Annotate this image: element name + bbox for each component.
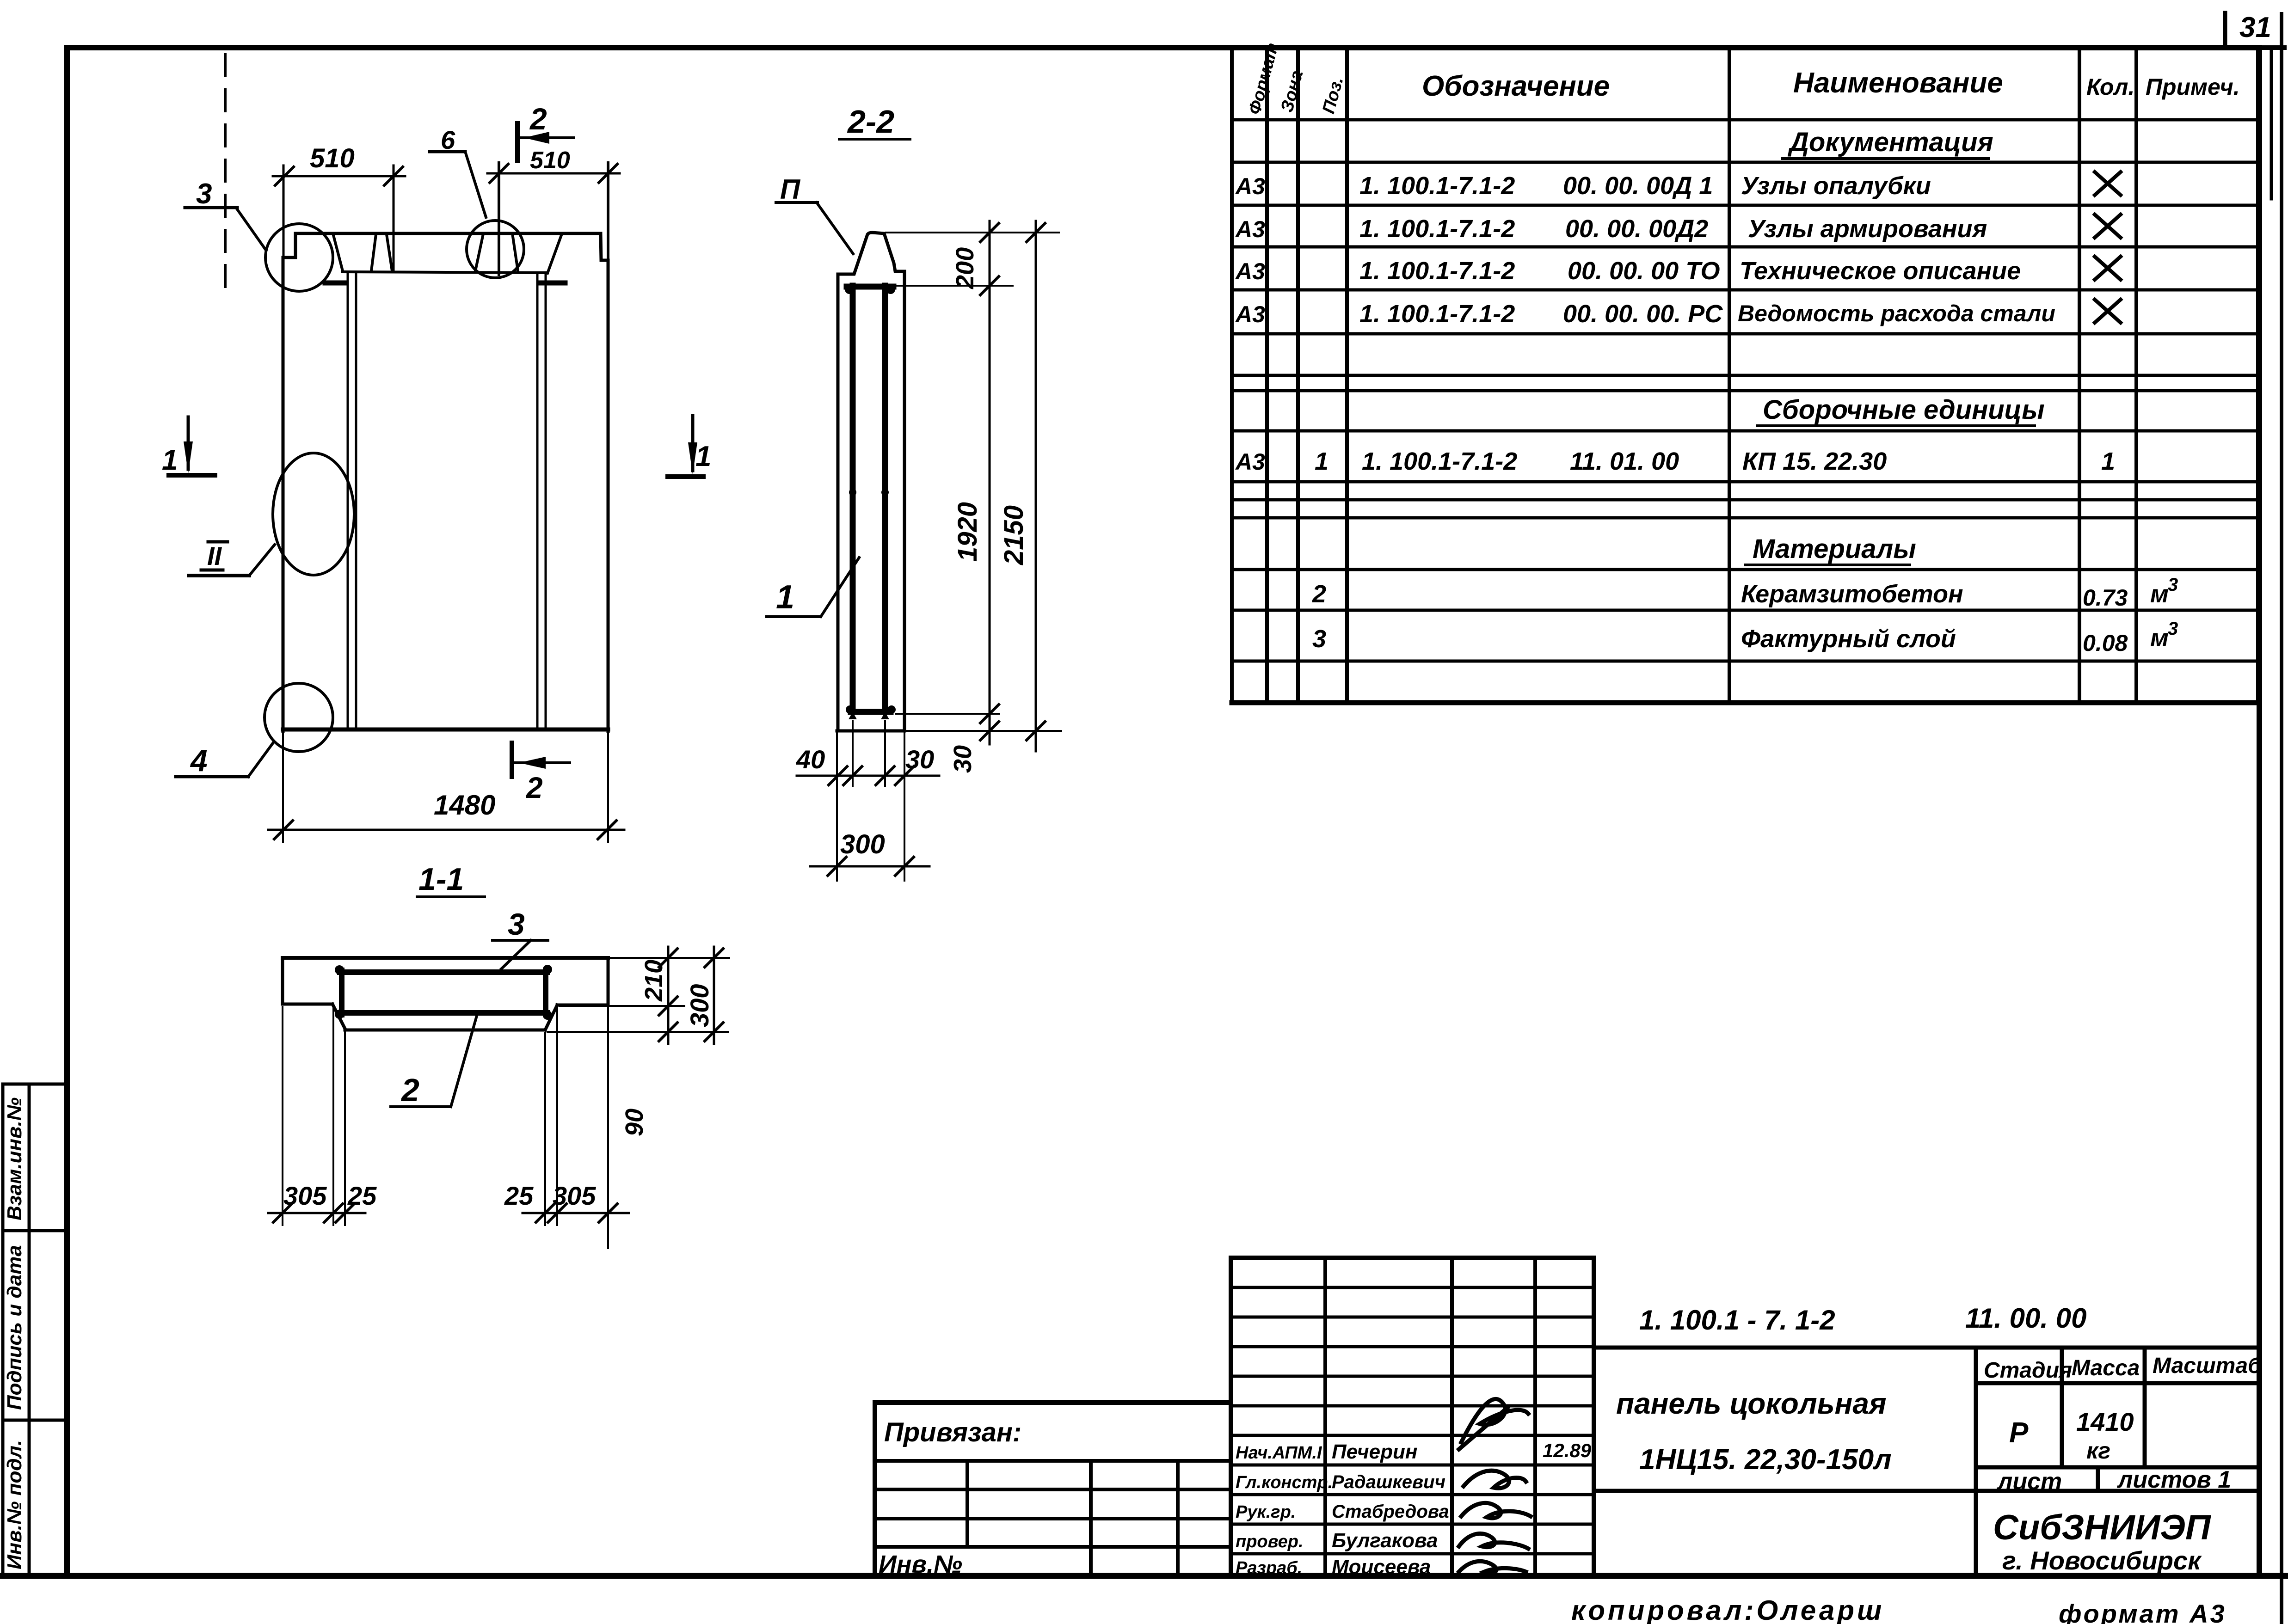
svg-text:Рук.гр.: Рук.гр.: [1236, 1502, 1296, 1522]
svg-text:1-1: 1-1: [418, 862, 464, 897]
svg-text:1: 1: [1315, 447, 1329, 475]
title 1-1: [417, 862, 485, 897]
dim 510 left extension lines: [283, 165, 394, 271]
svg-text:1410: 1410: [2076, 1407, 2134, 1436]
groove 2 left line: [475, 234, 483, 271]
sheet number 31 box: [2225, 12, 2271, 48]
2-2 bottom extension lines: [837, 721, 904, 881]
section mark 1 left: [162, 417, 215, 476]
detail circle 4: [264, 683, 333, 752]
svg-text:Гл.констр.: Гл.констр.: [1236, 1473, 1333, 1492]
label 3 (1-1): [492, 907, 548, 969]
svg-text:0.73: 0.73: [2083, 585, 2128, 611]
svg-text:панель цокольная: панель цокольная: [1616, 1387, 1887, 1420]
svg-text:510: 510: [310, 143, 355, 173]
svg-text:25: 25: [347, 1181, 377, 1210]
right joint cut mark: [540, 281, 565, 286]
left joint cut mark: [325, 281, 345, 286]
dim 210 / 90: [621, 947, 677, 1136]
svg-text:1. 100.1 - 7. 1-2: 1. 100.1 - 7. 1-2: [1639, 1305, 1835, 1336]
dim 2150: [999, 221, 1045, 751]
panel left edge: [282, 257, 285, 731]
svg-text:3: 3: [1312, 625, 1326, 653]
dim 1480 extension lines: [283, 733, 608, 842]
svg-text:А3: А3: [1235, 449, 1265, 475]
svg-text:Привязан:: Привязан:: [884, 1417, 1021, 1447]
svg-text:Кол.: Кол.: [2086, 74, 2134, 100]
detail ellipse II: [273, 453, 354, 575]
1-1 right extension lines: [547, 958, 729, 1032]
svg-text:25: 25: [504, 1181, 534, 1210]
svg-text:Техническое описание: Техническое описание: [1740, 257, 2021, 285]
svg-text:КП 15. 22.30: КП 15. 22.30: [1742, 447, 1887, 475]
svg-text:1480: 1480: [434, 790, 495, 821]
svg-text:40: 40: [796, 745, 825, 774]
svg-text:А3: А3: [1235, 301, 1265, 327]
svg-text:1: 1: [776, 579, 794, 616]
groove 1 right line: [387, 234, 392, 271]
svg-text:00. 00. 00. РС: 00. 00. 00. РС: [1563, 300, 1723, 328]
svg-text:1: 1: [695, 441, 711, 472]
label П: [776, 174, 853, 254]
rebar top tie: [847, 284, 893, 290]
svg-text:Взам.инв.№: Взам.инв.№: [3, 1097, 26, 1220]
svg-text:30: 30: [905, 745, 934, 774]
svg-text:11. 01. 00: 11. 01. 00: [1570, 447, 1679, 475]
svg-text:210: 210: [640, 960, 668, 1002]
panel right edge: [607, 260, 610, 731]
left vertical strip: [3, 1084, 67, 1576]
rebar end dots: [845, 285, 896, 719]
right block texts: [1616, 1303, 2262, 1575]
svg-text:2: 2: [1312, 580, 1326, 608]
svg-text:Наименование: Наименование: [1793, 67, 2003, 99]
svg-text:00. 00. 00Д2: 00. 00. 00Д2: [1565, 215, 1708, 243]
signatures squiggles: [1459, 1399, 1531, 1573]
svg-text:1: 1: [2101, 447, 2115, 475]
detail circle 3: [265, 224, 333, 291]
svg-text:А3: А3: [1235, 216, 1265, 242]
svg-text:3: 3: [196, 178, 212, 210]
label 3: [185, 178, 266, 250]
signature table texts: [1236, 1440, 1592, 1578]
svg-text:Булгакова: Булгакова: [1332, 1529, 1438, 1552]
label 6: [430, 125, 486, 217]
svg-text:Печерин: Печерин: [1332, 1440, 1417, 1463]
svg-text:0.08: 0.08: [2083, 630, 2128, 656]
dim 305 / 25 left: [268, 1181, 377, 1222]
svg-text:1. 100.1-7.1-2: 1. 100.1-7.1-2: [1362, 447, 1517, 475]
svg-text:копировал:Олеарш: копировал:Олеарш: [1571, 1595, 1884, 1624]
panel top-left notch: [283, 233, 295, 257]
dim 510 right extension lines: [499, 163, 608, 275]
svg-text:1. 100.1-7.1-2: 1. 100.1-7.1-2: [1359, 257, 1515, 285]
svg-text:Инв.№: Инв.№: [879, 1550, 962, 1578]
dim 30 right: [949, 714, 999, 773]
page right edge: [2280, 14, 2283, 1624]
svg-text:12.89: 12.89: [1543, 1440, 1592, 1461]
top band bottom line: [343, 272, 547, 273]
label 4: [176, 742, 274, 778]
band right slope: [547, 234, 562, 273]
svg-text:200: 200: [951, 247, 979, 289]
svg-text:Разраб.: Разраб.: [1236, 1558, 1302, 1578]
rebar right bar: [882, 286, 888, 712]
svg-text:3: 3: [2168, 619, 2178, 639]
dim 300 bottom: [810, 829, 929, 876]
2-2 right extension lines: [886, 233, 1061, 731]
signature table vertical lines: [1231, 1258, 1594, 1576]
svg-text:П: П: [780, 174, 801, 205]
label II: [189, 541, 275, 576]
svg-text:Масса: Масса: [2072, 1356, 2140, 1380]
groove 2 right line: [512, 233, 518, 271]
svg-text:Стабредова: Стабредова: [1332, 1501, 1449, 1522]
svg-text:1. 100.1-7.1-2: 1. 100.1-7.1-2: [1359, 172, 1515, 200]
row КП 15.22.30: [1235, 447, 2115, 475]
svg-text:3: 3: [2168, 575, 2178, 595]
svg-text:2-2: 2-2: [847, 104, 894, 140]
svg-text:Подпись и дата: Подпись и дата: [3, 1245, 26, 1410]
svg-text:Ведомость расхода стали: Ведомость расхода стали: [1738, 300, 2055, 326]
signature table row lines: [1231, 1258, 1594, 1554]
detail circle 6: [467, 221, 524, 278]
label 1 (rebar): [767, 558, 859, 617]
table header texts: [1245, 41, 2240, 116]
label 2 (1-1): [391, 1014, 477, 1108]
row Керамзитобетон: [1312, 575, 2178, 611]
svg-text:А3: А3: [1235, 173, 1265, 199]
dim 1480: [268, 790, 624, 839]
row Техническое описание: [1235, 257, 2021, 285]
svg-text:Радашкевич: Радашкевич: [1332, 1472, 1445, 1492]
panel bottom edge: [283, 728, 608, 732]
svg-text:А3: А3: [1235, 258, 1265, 284]
svg-text:Сборочные единицы: Сборочные единицы: [1763, 395, 2045, 425]
row Узлы опалубки: [1235, 172, 1931, 200]
section mark 2 top: [517, 102, 573, 161]
section mark 2 bottom: [512, 743, 570, 804]
1-1 rebar frame: [340, 970, 547, 1015]
svg-text:м: м: [2150, 624, 2169, 652]
page edge double line top right: [2270, 48, 2273, 199]
svg-text:листов 1: листов 1: [2116, 1466, 2231, 1493]
svg-text:II: II: [207, 541, 222, 570]
svg-text:Р: Р: [2009, 1417, 2029, 1449]
table row lines: [1232, 120, 2258, 703]
svg-text:31: 31: [2239, 12, 2271, 43]
svg-text:Документация: Документация: [1787, 127, 1993, 157]
svg-text:кг: кг: [2086, 1438, 2110, 1464]
dim 40 / 30 bottom: [796, 745, 939, 785]
svg-text:2: 2: [400, 1072, 419, 1108]
row Ведомость расхода стали: [1235, 300, 2055, 328]
svg-text:СибЗНИИЭП: СибЗНИИЭП: [1993, 1508, 2211, 1547]
left joint double line: [348, 274, 356, 729]
band left slope: [333, 233, 343, 271]
panel top-right notch: [601, 233, 608, 260]
svg-text:305: 305: [553, 1181, 596, 1210]
svg-text:305: 305: [283, 1181, 327, 1210]
section 2-2 outline: [837, 233, 904, 731]
svg-text:Керамзитобетон: Керамзитобетон: [1741, 580, 1963, 608]
right joint double line: [537, 274, 546, 729]
svg-text:11. 00. 00: 11. 00. 00: [1965, 1303, 2086, 1334]
rebar bottom tie: [851, 709, 891, 715]
1-1 bottom extension lines: [283, 1007, 608, 1248]
svg-text:Масштаб: Масштаб: [2153, 1354, 2262, 1378]
svg-text:1НЦ15. 22,30-150л: 1НЦ15. 22,30-150л: [1639, 1444, 1892, 1476]
row Узлы армирования: [1235, 215, 1987, 243]
svg-text:Узлы опалубки: Узлы опалубки: [1741, 172, 1931, 200]
title 2-2: [839, 104, 910, 140]
svg-text:формат А3: формат А3: [2059, 1599, 2226, 1624]
rebar left bar: [850, 286, 856, 712]
panel top edge: [295, 232, 601, 235]
svg-text:300: 300: [685, 984, 714, 1027]
svg-text:1920: 1920: [953, 502, 983, 562]
svg-text:Обозначение: Обозначение: [1422, 70, 1610, 102]
table vertical lines: [1232, 48, 2258, 703]
svg-text:Примеч.: Примеч.: [2146, 74, 2240, 100]
svg-text:г. Новосибирск: г. Новосибирск: [2002, 1546, 2202, 1575]
svg-text:м: м: [2150, 580, 2169, 608]
svg-text:30: 30: [949, 745, 977, 773]
привязан box: [875, 1403, 1231, 1576]
svg-text:2: 2: [529, 102, 547, 136]
groove 1 left line: [371, 234, 376, 271]
svg-text:Узлы армирования: Узлы армирования: [1748, 215, 1987, 243]
svg-text:Моисеева: Моисеева: [1332, 1556, 1431, 1578]
svg-text:300: 300: [840, 829, 885, 859]
svg-text:1: 1: [162, 444, 178, 476]
svg-text:Инв.№ подл.: Инв.№ подл.: [3, 1440, 26, 1569]
svg-text:90: 90: [621, 1109, 648, 1136]
1-1 rebar corner dots: [335, 965, 552, 1020]
dim 510 right: [487, 147, 620, 183]
dashed axis line: [224, 55, 227, 289]
svg-text:Нач.АПМ.I: Нач.АПМ.I: [1236, 1443, 1322, 1463]
section 1-1 outline: [283, 958, 608, 1030]
svg-text:2: 2: [526, 771, 543, 804]
dim 200: [951, 221, 999, 296]
svg-text:00. 00. 00 ТО: 00. 00. 00 ТО: [1568, 257, 1720, 285]
row Фактурный слой: [1312, 619, 2178, 656]
dim 25 / 305 right: [504, 1181, 629, 1222]
svg-text:00. 00. 00Д 1: 00. 00. 00Д 1: [1563, 172, 1713, 200]
dim 300 (1-1): [685, 947, 723, 1044]
svg-text:Материалы: Материалы: [1753, 534, 1916, 564]
section mark 1 right: [668, 416, 711, 477]
svg-text:1. 100.1-7.1-2: 1. 100.1-7.1-2: [1359, 300, 1515, 328]
svg-text:провер.: провер.: [1236, 1532, 1304, 1551]
svg-text:Стадия: Стадия: [1984, 1358, 2072, 1383]
svg-text:лист: лист: [1996, 1468, 2062, 1495]
svg-text:4: 4: [190, 743, 208, 778]
dim 510 left: [273, 143, 405, 185]
svg-text:3: 3: [508, 907, 525, 941]
svg-text:2150: 2150: [999, 505, 1029, 565]
svg-text:1. 100.1-7.1-2: 1. 100.1-7.1-2: [1359, 215, 1515, 243]
svg-text:510: 510: [530, 147, 570, 174]
svg-text:Фактурный слой: Фактурный слой: [1741, 625, 1956, 653]
dim 1920: [953, 286, 999, 723]
right block frame: [1594, 1348, 2259, 1576]
